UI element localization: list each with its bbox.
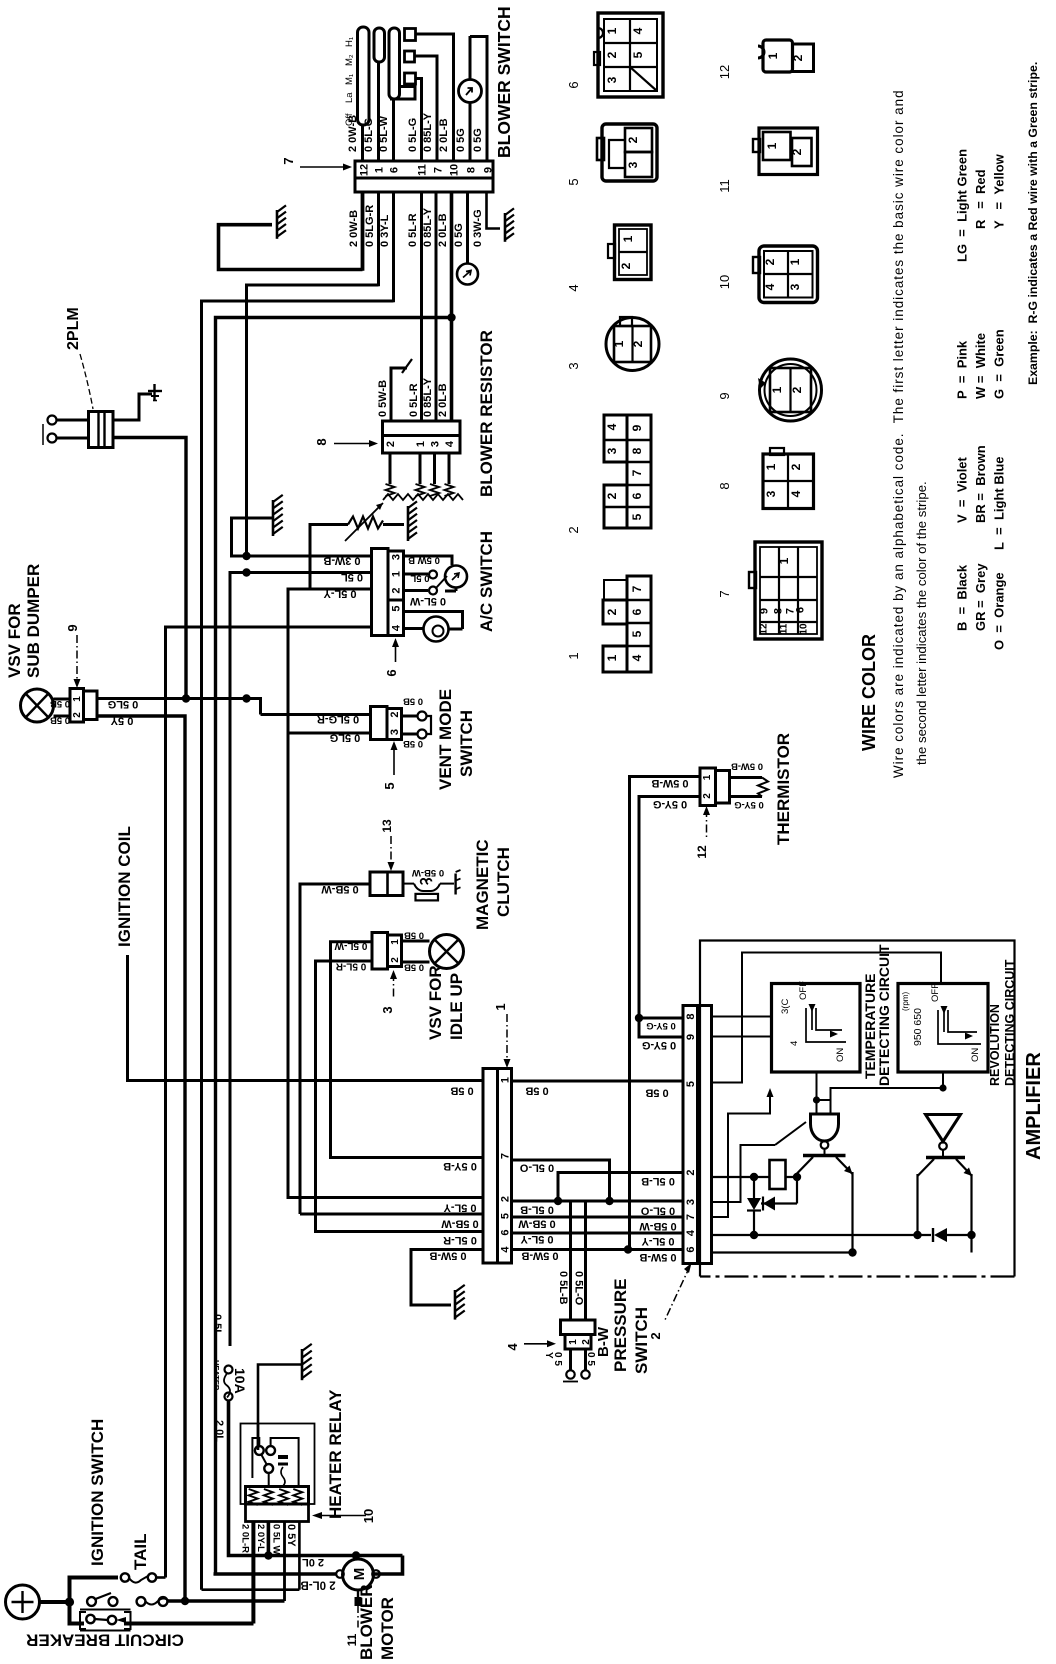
svg-text:3: 3 [605,76,619,83]
svg-text:La: La [344,92,355,103]
svg-text:2 0L-B: 2 0L-B [437,213,449,247]
wire vsv sub top [54,698,71,701]
svg-text:2: 2 [605,608,619,615]
diode D2 [761,1202,797,1204]
svg-text:M₂: M₂ [344,54,355,66]
wire motor top row [374,1556,403,1575]
svg-text:M₁: M₁ [344,74,355,85]
svg-text:1: 1 [390,939,401,945]
blower switch slider C foot [390,87,415,100]
wire vsv idle top right [402,940,430,943]
relay coil bar [246,1487,309,1505]
svg-text:1: 1 [391,571,403,577]
junction gate input [813,1096,820,1103]
svg-text:0 5L: 0 5L [341,571,363,583]
svg-text:0 5LG: 0 5LG [330,732,361,744]
svg-text:0 5Y: 0 5Y [110,715,133,727]
junction D1 row [750,1231,758,1239]
svg-text:0 5L: 0 5L [211,1314,223,1336]
svg-text:CLUTCH: CLUTCH [494,847,513,917]
svg-text:0 5LG-R: 0 5LG-R [364,205,376,247]
junction vsv 2plm [182,694,190,702]
svg-text:MOTOR: MOTOR [378,1597,397,1660]
svg-text:1: 1 [568,1339,579,1345]
svg-text:1: 1 [766,52,780,59]
svg-text:0 3W-B: 0 3W-B [323,555,360,567]
wire 2plm to ground [113,394,152,420]
svg-text:BLOWER: BLOWER [357,1584,376,1660]
junction a/c pin1 bus [242,568,250,576]
motor terminal left [336,1570,344,1578]
tick 0.5W-B [402,359,412,373]
svg-text:4: 4 [631,27,645,34]
svg-text:9: 9 [717,392,732,399]
wire harness pin2 left [288,1196,483,1199]
wire riser to amp pin2 [558,1173,683,1202]
connector face 10 [759,246,818,303]
vsv idle connector 3 [372,933,388,970]
svg-text:2: 2 [391,587,403,593]
svg-text:8: 8 [314,438,329,445]
svg-text:HEATER RELAY: HEATER RELAY [326,1389,345,1519]
wire lamp bottom [455,588,458,592]
svg-text:5: 5 [382,782,397,789]
svg-text:2 0L-B: 2 0L-B [437,383,449,417]
junction 0.5L-O [605,1197,613,1205]
wire 2.0L-B corner [214,1574,216,1575]
svg-text:8: 8 [685,1013,697,1019]
svg-text:VENT MODE: VENT MODE [436,689,455,790]
connector face 7 [755,542,822,639]
wire coil D feed [202,1588,300,1591]
svg-text:3: 3 [380,1006,395,1013]
svg-text:0 5G: 0 5G [455,128,467,152]
junction Q1 pin6 row [848,1251,850,1253]
clutch coil [414,884,440,891]
svg-text:A/C SWITCH: A/C SWITCH [477,531,496,632]
wire relay D 0.5Y [298,1522,301,1590]
svg-text:0 5B-W: 0 5B-W [412,867,444,878]
wire rev box to gate [831,1072,944,1114]
wire a/c pin4 lamp2 [404,627,424,630]
svg-text:0 5W-B: 0 5W-B [521,1250,558,1262]
wire a/c pin3 right [404,556,453,565]
ignition wave link [146,1599,170,1605]
svg-text:AMPLIFIER: AMPLIFIER [1023,1052,1045,1160]
svg-text:0 5L W: 0 5L W [271,1524,282,1554]
svg-text:7: 7 [685,1214,697,1220]
svg-text:0 5L-Y: 0 5L-Y [520,1233,554,1245]
pointer 5 to vent mode [393,744,395,775]
wire 0.5Y-G pin8 [639,1017,683,1020]
svg-text:6: 6 [566,81,581,88]
svg-text:7: 7 [630,585,644,592]
svg-text:0 5W-B: 0 5W-B [731,761,763,772]
blower switch contact sq1 [405,29,416,41]
svg-text:2 0L-B: 2 0L-B [300,1579,335,1591]
inverter gate [926,1115,961,1142]
thermo arrow [345,503,383,541]
svg-text:8: 8 [773,608,785,614]
svg-text:2 0L-B: 2 0L-B [438,118,450,152]
wire junction up tail [70,1578,119,1603]
svg-text:0 5Y: 0 5Y [285,1524,297,1547]
amplifier box [700,941,1015,1277]
blower resistor connector 8 [383,421,461,436]
junction motor stub [352,1551,360,1559]
svg-text:12: 12 [359,164,371,176]
wire contact3 to pin11 [416,79,422,163]
svg-text:8: 8 [630,447,644,454]
svg-text:7: 7 [433,167,445,173]
svg-text:6: 6 [795,607,807,613]
wire 0.5LG vsv [97,699,261,715]
svg-text:3: 3 [391,554,403,560]
svg-text:2: 2 [619,262,633,269]
transistor Q2 [942,1150,944,1157]
relay contact c1 [255,1446,264,1455]
vent bracket [427,716,432,734]
circuit breaker box [80,1612,86,1629]
wire harness pin5 left [300,1213,483,1216]
svg-text:0 5LG-R: 0 5LG-R [317,713,359,725]
svg-text:2: 2 [791,54,805,61]
pointer 10 to relay [312,1512,322,1519]
ground a/c thermo [408,501,417,508]
svg-text:REVOLUTION: REVOLUTION [988,1004,1002,1086]
svg-text:0 3Y-L: 0 3Y-L [379,214,391,247]
svg-text:2: 2 [566,526,581,533]
wire 0.5L a/c pin1 [230,573,372,1347]
svg-text:0 3W-G: 0 3W-G [472,209,484,247]
junction Q2 left [913,1231,921,1239]
svg-text:1: 1 [612,340,626,347]
illumination symbol 0.5G [457,264,478,285]
svg-text:9: 9 [65,624,80,631]
svg-text:2: 2 [631,340,645,347]
motor terminal right [372,1570,380,1578]
svg-text:1: 1 [605,27,619,34]
svg-text:WIRE COLOR: WIRE COLOR [859,634,879,751]
wire relay c1 riser [257,1424,260,1448]
svg-text:0 5B-W: 0 5B-W [639,1220,677,1232]
illumination lamp blower [459,80,482,103]
svg-text:4: 4 [500,1246,512,1253]
svg-text:OFF: OFF [930,983,941,1002]
svg-text:M: M [351,1568,368,1581]
svg-text:L = Light Blue: L = Light Blue [992,456,1007,550]
svg-text:0 5L-O: 0 5L-O [573,1271,585,1306]
wire Q1 emitter down [851,1172,853,1253]
junction a/c pin3 bus [242,552,250,560]
2plm condenser [89,412,114,448]
svg-text:3: 3 [605,447,619,454]
magnetic clutch connector 13 [370,872,403,896]
wire 0.5Y-G pin9 [639,1018,683,1037]
svg-text:0 5G: 0 5G [472,128,484,152]
diode D1 [753,1177,755,1198]
wire amp pin4 row inside [712,1234,932,1236]
relay blade [261,1454,267,1465]
wire clutch left [300,884,370,1214]
svg-text:0 5W-B: 0 5W-B [429,1250,466,1262]
svg-text:V = Violet: V = Violet [955,456,970,523]
svg-text:0 5L-G: 0 5L-G [363,118,375,152]
svg-text:SUB DUMPER: SUB DUMPER [24,564,43,678]
svg-text:2: 2 [385,441,397,447]
wire ignition to relay coil C [283,1522,286,1602]
wire 0.3W-G to ground [487,192,501,229]
svg-text:0 5Y-G: 0 5Y-G [734,799,764,810]
svg-text:3: 3 [566,362,581,369]
svg-text:0 5Y-G: 0 5Y-G [653,798,687,810]
svg-text:1: 1 [702,774,713,780]
vsv sub dumper solenoid [21,689,54,722]
svg-text:0 5L-R: 0 5L-R [335,961,366,972]
junction vsv bus [242,694,250,702]
svg-text:0 5Y-B: 0 5Y-B [443,1160,477,1172]
wire a/c thermo riser [310,525,348,590]
connector face 11 [759,128,818,175]
svg-text:0 5B-W: 0 5B-W [518,1218,556,1230]
junction 2.0L-B [447,313,455,321]
wire amp pin5 to rev box [712,953,942,1083]
svg-text:0 5L: 0 5L [410,573,429,584]
wire 0.5W-B resistor [391,368,407,421]
wire row 0.5L-B [512,1200,684,1203]
wire relay C 0.5L-W [283,1522,286,1602]
svg-text:1: 1 [566,652,581,659]
wire breaker to relay contact [252,1522,256,1624]
ground 0.5W-B [455,1285,465,1292]
relay lower bar [246,1504,309,1522]
svg-text:DETECTING CIRCUIT: DETECTING CIRCUIT [876,944,892,1086]
wire 0.5L-R down to resistor [420,192,423,421]
svg-text:5: 5 [391,605,403,611]
blower switch slider contact B [374,28,385,62]
svg-text:O = Orange: O = Orange [992,572,1007,650]
pointer 13 to magnetic clutch [390,836,392,868]
svg-text:G = Green: G = Green [992,329,1007,399]
vsv idle solenoid [430,935,464,969]
svg-text:12: 12 [758,623,769,635]
tail contact 1 [121,1573,129,1581]
svg-text:2PLM: 2PLM [65,307,82,350]
wire Q2 right down [970,1174,972,1235]
svg-text:6: 6 [500,1229,512,1235]
wire 0.5LG-R corner [247,285,379,557]
a/c switch connector 6 [372,549,389,636]
svg-text:3: 3 [430,441,442,447]
svg-text:4: 4 [763,283,777,290]
svg-text:7: 7 [630,469,644,476]
wire gate input link [817,1099,831,1101]
wire c3 to coil bar [268,1473,270,1487]
harness connector 1 [483,1069,498,1264]
svg-text:7: 7 [281,157,296,164]
blower switch connector 7 [355,161,493,178]
svg-text:0 85L-Y: 0 85L-Y [422,377,434,417]
svg-text:HEATER: HEATER [212,1360,221,1391]
wire 0.3Y-L corner [202,301,394,1590]
wire thermo to ground [383,523,404,526]
wire tail corner [157,1576,166,1579]
connector face 3 [606,318,659,371]
wire battery to junction [40,1600,70,1604]
connector face 9 [760,359,822,421]
svg-text:5: 5 [685,1081,697,1087]
ignition blade [96,1593,112,1599]
svg-text:0 5Y-G: 0 5Y-G [646,1020,676,1031]
svg-text:3: 3 [389,729,401,735]
svg-text:the second letter indicates th: the second letter indicates the color of… [914,481,929,765]
svg-text:2: 2 [390,957,401,963]
svg-text:4: 4 [566,284,581,291]
svg-text:SWITCH: SWITCH [457,710,476,777]
a/c contact 2 [404,589,429,592]
svg-text:2: 2 [789,463,803,470]
svg-text:1: 1 [605,654,619,661]
svg-text:2: 2 [790,148,804,155]
svg-text:MAGNETIC: MAGNETIC [473,839,492,930]
connector face 6 [598,13,663,97]
svg-text:DETECTING CIRCUIT: DETECTING CIRCUIT [1003,959,1017,1086]
blower switch slider contact A [358,27,370,125]
connector face 1 [627,576,651,672]
wire 2plm down [113,438,186,699]
wire harness pin4 left [411,1250,483,1306]
ground 2plm [153,384,155,400]
svg-text:2 0L: 2 0L [213,1420,225,1442]
a/c contact 1 [404,573,429,576]
wire clutch to ground [440,883,454,885]
wire 0.3W-B a/c pin3 [232,518,372,556]
svg-text:0 5L-W: 0 5L-W [334,940,367,951]
amplifier connector 2 [683,1006,698,1264]
relay right bracket [271,1438,299,1487]
wire 0.85L-Y down to resistor [435,192,438,421]
svg-text:2: 2 [702,793,713,799]
relay contact c2 [266,1446,275,1455]
wire 0.5LG-R down [377,192,380,286]
resistor R1 [770,1160,786,1189]
breaker contact 1 [86,1615,94,1623]
svg-text:10: 10 [798,623,809,635]
svg-text:2: 2 [581,1339,592,1345]
svg-text:1: 1 [72,696,83,702]
wire ignition row [168,1599,285,1603]
ignition contact 1 [87,1597,96,1606]
svg-text:0 5W-B: 0 5W-B [639,1251,676,1263]
svg-text:4: 4 [505,1343,520,1351]
svg-text:4: 4 [444,440,456,447]
pointer 6 to a/c switch [395,641,397,662]
svg-text:VSV FOR: VSV FOR [426,965,445,1040]
svg-text:8: 8 [717,482,732,489]
svg-text:1: 1 [788,258,802,265]
svg-text:8: 8 [466,167,478,173]
svg-text:OFF: OFF [798,981,809,1000]
svg-text:3: 3 [685,1199,697,1205]
wire Q2 left down [916,1174,918,1235]
svg-text:6: 6 [630,608,644,615]
wire relay B 2.0Y-L [267,1522,271,1556]
temperature detecting circuit box [772,984,861,1073]
svg-text:0 5L-B: 0 5L-B [641,1175,675,1187]
svg-text:0 5B: 0 5B [450,1085,473,1097]
svg-text:2 0L: 2 0L [302,1556,324,1568]
wire pin12 to slider A [361,125,364,162]
svg-text:2 0W-B: 2 0W-B [347,115,359,152]
svg-text:0 5L-R: 0 5L-R [407,213,419,247]
svg-text:10: 10 [449,164,461,176]
svg-text:5: 5 [566,178,581,185]
svg-text:2: 2 [685,1169,697,1175]
pointer 12 to thermistor [706,809,708,838]
svg-text:2: 2 [790,386,804,393]
svg-text:0 5B: 0 5B [404,930,424,941]
svg-text:6: 6 [384,669,399,676]
a/c switch blade [436,576,447,588]
svg-text:12: 12 [717,65,732,79]
ignition contact 4 [159,1597,168,1606]
wire amp pin8 to temp box [712,1016,772,1018]
junction Q2 right [967,1231,975,1239]
svg-text:0 5L-B: 0 5L-B [520,1204,554,1216]
svg-text:13: 13 [380,819,394,833]
svg-text:0 5B-W: 0 5B-W [321,883,359,895]
svg-text:2 0Y-L: 2 0Y-L [255,1524,266,1552]
svg-text:0 5G: 0 5G [453,223,465,247]
svg-text:4: 4 [630,654,644,661]
wire amp pin9 to temp box [712,1036,772,1038]
wire 0.5G to illum symbol [466,192,469,264]
wire vsv idle bottom right [402,961,430,964]
2plm terminal 2 [48,434,57,443]
svg-text:4: 4 [685,1229,697,1236]
svg-text:0 5B: 0 5B [403,696,423,707]
heater relay box [241,1424,315,1505]
svg-text:11: 11 [717,179,732,193]
pressure switch terminals [569,1349,572,1370]
svg-text:1: 1 [770,386,784,393]
blower switch contact sq3 [405,73,416,84]
wire vsv idle pin2 [316,961,484,1232]
wire 2.0L-B branch [216,318,452,1576]
wire row 0.5W-B [512,1248,684,1251]
svg-text:950 650: 950 650 [912,1008,924,1046]
svg-text:0 5L-Y: 0 5L-Y [323,588,357,600]
wire vent pin2 [261,713,371,716]
wire 0.5LG a/c pin4 [166,627,372,1578]
svg-text:1: 1 [621,235,635,242]
junction 0.5Y-G [635,1014,643,1022]
thermistor element [730,776,763,779]
svg-text:THERMISTOR: THERMISTOR [774,733,793,845]
svg-text:0 5L-W: 0 5L-W [409,595,446,607]
svg-text:W = White: W = White [973,333,988,399]
svg-text:Example: R-G indicates a Red: Example: R-G indicates a Red wire with a… [1026,62,1040,385]
svg-text:2: 2 [500,1196,512,1202]
svg-text:Wire colors are indicated by a: Wire colors are indicated by an alphabet… [891,89,906,778]
svg-text:SWITCH: SWITCH [632,1307,651,1374]
battery symbol [6,1585,40,1619]
pressure switch connector 4 [561,1320,596,1335]
svg-text:9: 9 [685,1034,697,1040]
wire vsv sub bottom [54,715,71,718]
wire breaker row [124,1622,254,1626]
svg-text:9: 9 [483,167,495,173]
